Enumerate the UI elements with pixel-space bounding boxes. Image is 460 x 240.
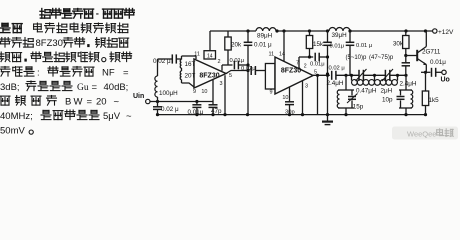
svg-text:=: = bbox=[92, 82, 98, 93]
svg-text:0.01μ: 0.01μ bbox=[430, 59, 446, 66]
svg-text:-: - bbox=[96, 9, 99, 20]
svg-text:3dB;: 3dB; bbox=[0, 82, 20, 93]
svg-text:10p: 10p bbox=[382, 96, 393, 103]
svg-text:3: 3 bbox=[305, 84, 308, 90]
svg-text:47p: 47p bbox=[211, 108, 222, 115]
svg-text:1k5: 1k5 bbox=[429, 97, 440, 104]
svg-text:8FZ30: 8FZ30 bbox=[36, 38, 63, 49]
svg-text:20T: 20T bbox=[185, 72, 196, 79]
svg-text:(5~10)p: (5~10)p bbox=[346, 55, 368, 61]
svg-text:16T: 16T bbox=[185, 61, 196, 68]
svg-text:=: = bbox=[87, 96, 93, 107]
svg-text:30p: 30p bbox=[285, 110, 295, 116]
svg-text:9: 9 bbox=[269, 89, 272, 95]
svg-text:3: 3 bbox=[219, 81, 222, 87]
svg-text:0.02μ: 0.02μ bbox=[241, 66, 256, 72]
svg-text:8FZ30: 8FZ30 bbox=[281, 67, 301, 74]
svg-text:Gu: Gu bbox=[77, 83, 89, 93]
svg-text:B: B bbox=[65, 96, 71, 107]
svg-text:Uin: Uin bbox=[133, 93, 144, 100]
svg-text:W: W bbox=[74, 96, 83, 107]
svg-text:8FZ30: 8FZ30 bbox=[199, 73, 219, 80]
svg-text::: : bbox=[37, 67, 40, 78]
svg-text:7: 7 bbox=[296, 61, 299, 67]
svg-text:+12V: +12V bbox=[438, 29, 454, 36]
svg-text:0.02 μ: 0.02 μ bbox=[329, 66, 345, 72]
svg-text:11: 11 bbox=[269, 51, 275, 57]
svg-text:40MHz;: 40MHz; bbox=[0, 111, 33, 122]
svg-text:10: 10 bbox=[282, 95, 288, 101]
svg-text:0.01μ: 0.01μ bbox=[310, 61, 325, 67]
svg-text:~: ~ bbox=[126, 111, 132, 122]
svg-text:30k: 30k bbox=[393, 41, 404, 48]
svg-text:15k: 15k bbox=[313, 41, 324, 48]
svg-text:2G711: 2G711 bbox=[422, 48, 441, 55]
svg-text:Uo: Uo bbox=[441, 77, 450, 84]
svg-text:50mV: 50mV bbox=[0, 125, 25, 136]
svg-text:0.02 μ: 0.02 μ bbox=[161, 106, 179, 113]
svg-text:2.4μH: 2.4μH bbox=[327, 80, 344, 87]
svg-text:5: 5 bbox=[314, 70, 317, 76]
svg-text:14: 14 bbox=[207, 54, 213, 60]
svg-text:0.01μ: 0.01μ bbox=[230, 58, 245, 64]
svg-text:~: ~ bbox=[114, 96, 120, 107]
svg-text:(47~75)p: (47~75)p bbox=[369, 55, 394, 61]
svg-text:20: 20 bbox=[96, 96, 107, 107]
svg-text:39μH: 39μH bbox=[332, 32, 348, 39]
svg-text:89μH: 89μH bbox=[257, 32, 273, 39]
svg-text:9: 9 bbox=[193, 89, 196, 95]
svg-text:0.47μH: 0.47μH bbox=[356, 88, 377, 95]
svg-text:10: 10 bbox=[201, 89, 207, 95]
svg-text:2: 2 bbox=[304, 63, 307, 69]
svg-text:WeeQee: WeeQee bbox=[407, 129, 436, 138]
svg-text:100μH: 100μH bbox=[159, 90, 178, 97]
svg-text:0.01μ: 0.01μ bbox=[330, 44, 345, 50]
svg-text:=: = bbox=[123, 67, 129, 78]
svg-text:NF: NF bbox=[102, 67, 115, 78]
svg-text:20k: 20k bbox=[231, 41, 242, 48]
svg-text:5: 5 bbox=[229, 73, 232, 79]
svg-text:5μV: 5μV bbox=[103, 111, 121, 122]
svg-text:0.02 μ: 0.02 μ bbox=[153, 58, 171, 65]
svg-text:15p: 15p bbox=[353, 103, 364, 110]
svg-text:2: 2 bbox=[218, 59, 221, 65]
svg-text:0.01 μ: 0.01 μ bbox=[254, 41, 272, 48]
svg-text:0.01 μ: 0.01 μ bbox=[356, 43, 372, 49]
svg-text:40dB;: 40dB; bbox=[104, 82, 129, 93]
svg-text:14: 14 bbox=[279, 51, 285, 57]
svg-text:0.01μ: 0.01μ bbox=[188, 109, 204, 116]
svg-text:2.4μH: 2.4μH bbox=[400, 80, 417, 87]
svg-text:11: 11 bbox=[194, 52, 200, 58]
svg-text:2μH: 2μH bbox=[381, 88, 393, 95]
